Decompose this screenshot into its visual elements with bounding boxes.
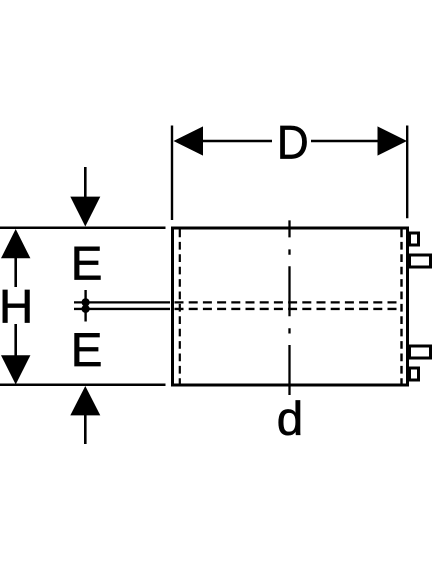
hidden pipe stop dashed line upper	[175, 301, 402, 303]
hidden edge dashed line right inside body	[400, 230, 402, 385]
top reference line left of body	[0, 226, 166, 229]
dimension H arrowhead bottom	[1, 355, 30, 384]
E arrow shaft bottom	[84, 414, 87, 444]
dimension D extension line left	[171, 126, 173, 221]
svg-text:D: D	[277, 116, 309, 169]
E arrowhead pointing down	[70, 197, 100, 227]
svg-text:H: H	[0, 280, 33, 333]
hidden edge dashed line left inside body	[179, 230, 181, 385]
clip tab bottom small	[410, 368, 419, 380]
clip tab top small	[410, 233, 419, 245]
dimension D line left segment	[200, 140, 272, 143]
dimension D line right segment	[311, 140, 380, 143]
insertion depth solid line upper	[74, 301, 170, 303]
fitting body outline	[173, 228, 408, 385]
svg-text:d: d	[277, 393, 303, 446]
E arrowhead pointing up	[70, 386, 100, 415]
dimension H line upper segment	[14, 256, 17, 287]
svg-text:E: E	[71, 324, 103, 377]
dimension D extension line right	[406, 126, 408, 219]
E reference node dot upper	[82, 298, 90, 306]
dimension D arrowhead right	[378, 126, 408, 155]
dimension H arrowhead top	[1, 229, 30, 258]
E reference node dot lower	[82, 305, 90, 313]
hidden pipe stop dashed line lower	[175, 308, 402, 310]
vertical centerline dash-dot	[288, 220, 290, 396]
bottom reference line left of body	[0, 384, 166, 387]
clip tab bottom wide	[410, 346, 431, 358]
E arrow shaft top	[84, 167, 87, 200]
svg-text:E: E	[71, 238, 103, 291]
insertion depth solid line lower	[74, 308, 170, 310]
clip tab top wide	[410, 255, 431, 267]
dimension D arrowhead left	[174, 126, 204, 155]
dimension H line lower segment	[14, 324, 17, 358]
E reference tick vertical	[84, 290, 86, 322]
